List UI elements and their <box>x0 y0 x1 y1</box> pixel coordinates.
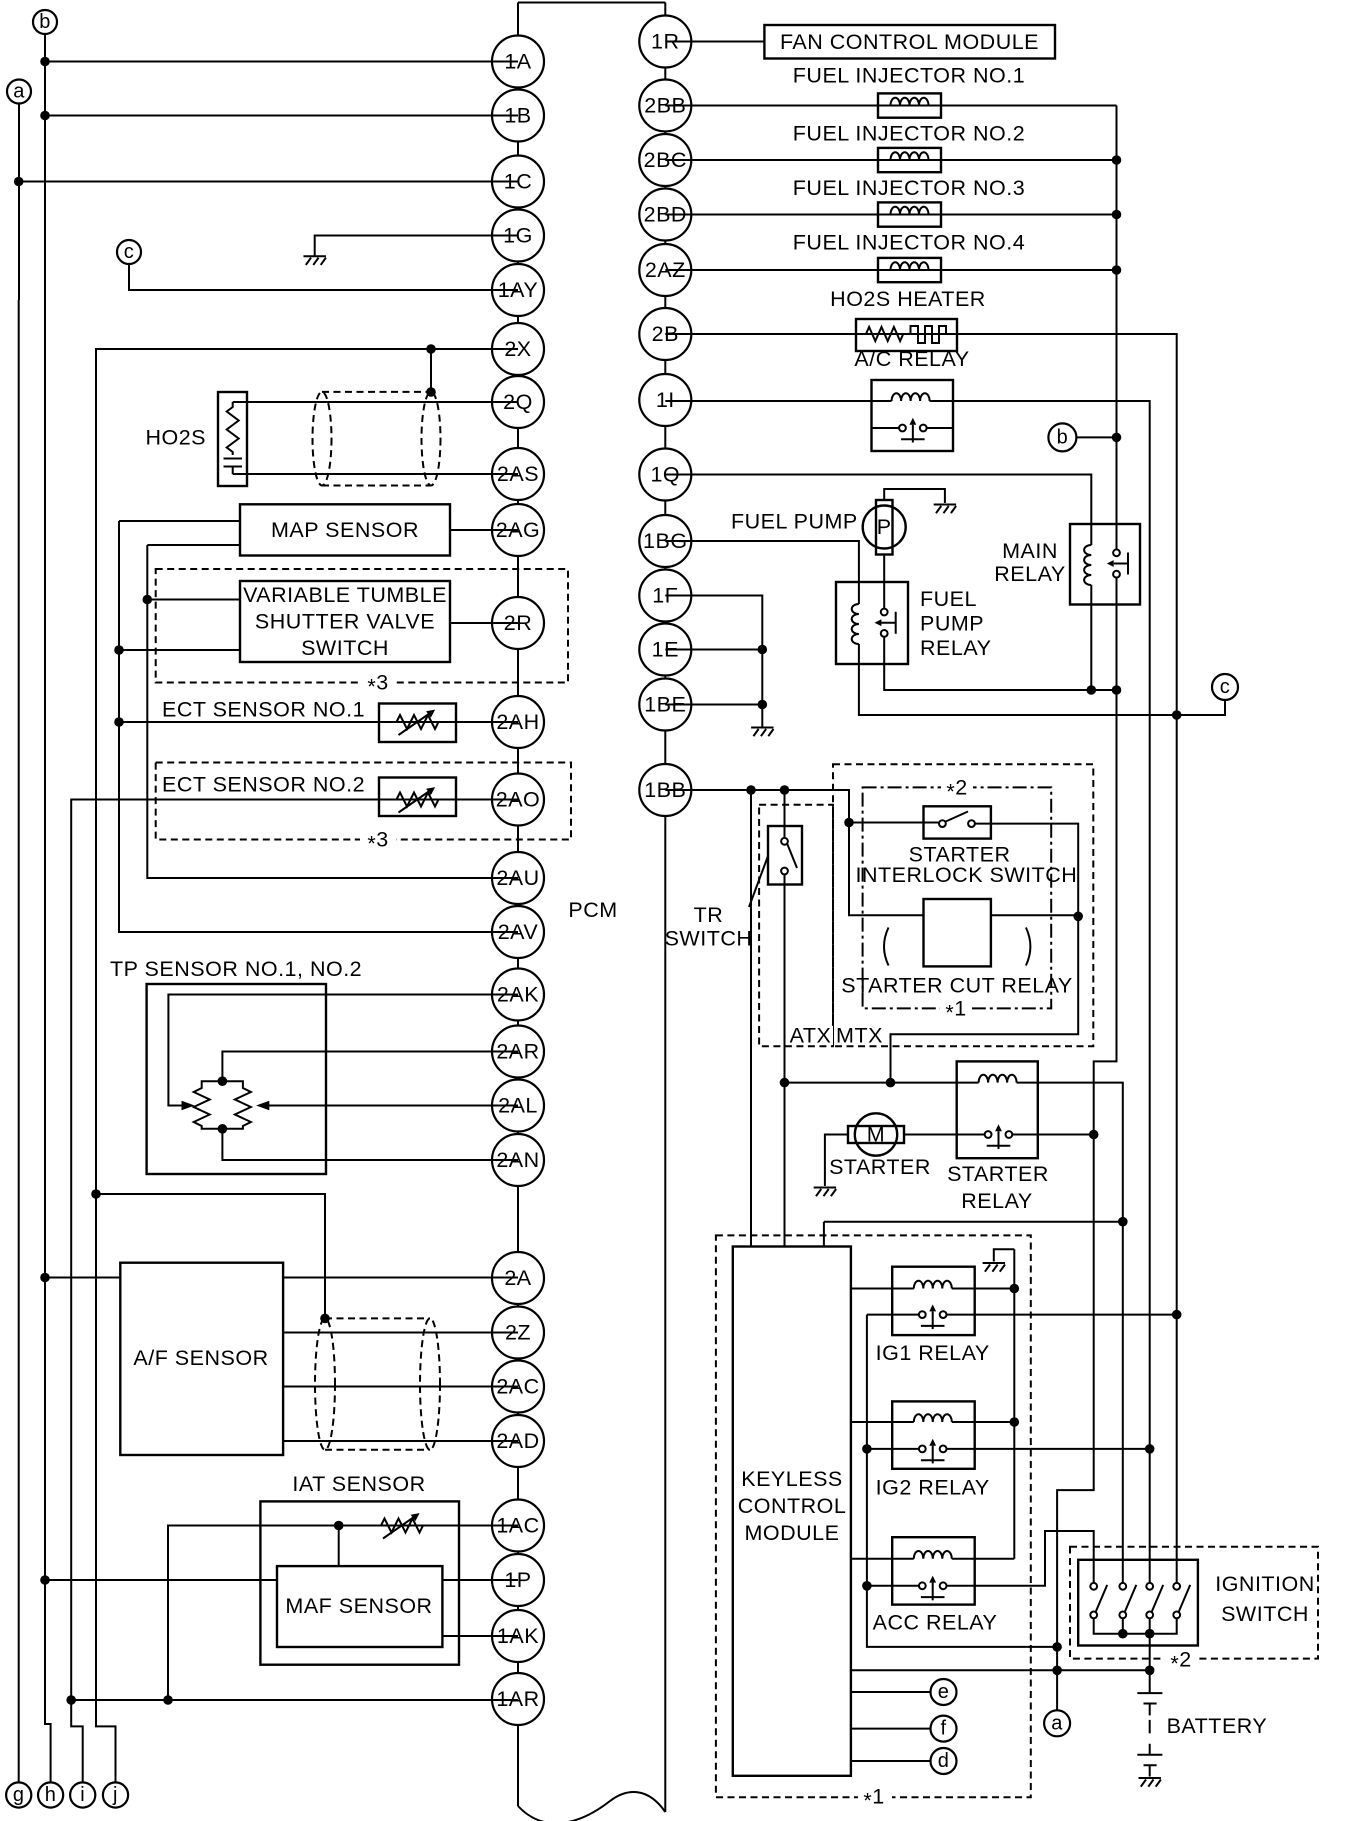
svg-text:PCM: PCM <box>568 898 617 922</box>
PCM pin 2AO <box>492 774 544 826</box>
PCM pin 1BB <box>639 764 691 816</box>
IG1 relay <box>892 1267 975 1335</box>
PCM pin 2BC <box>639 134 691 186</box>
wire KCM to IG1 relay coil <box>851 1288 914 1290</box>
svg-text:g: g <box>13 1784 25 1806</box>
wire ACC coil to ground rail <box>952 1558 1015 1560</box>
*2 label on ignition box <box>1164 1648 1198 1676</box>
PCM pin 1E <box>639 624 691 676</box>
A/F sensor <box>120 1263 283 1455</box>
wire MAP bottom-left to 2AU rail <box>147 544 240 546</box>
wire KCM to d <box>851 1760 931 1762</box>
wire starter motor to relay contact <box>904 1134 985 1136</box>
svg-text:a: a <box>13 81 25 103</box>
ignition switch label <box>1215 1572 1315 1626</box>
2BB rail segment with main relay contact <box>1094 106 1117 1132</box>
svg-text:SWITCH: SWITCH <box>665 927 753 951</box>
wire MAP to 2AG <box>450 529 518 531</box>
svg-text:IGNITION: IGNITION <box>1215 1572 1315 1596</box>
wire 2AL to TP wiper right <box>268 1105 518 1107</box>
svg-text:MAF SENSOR: MAF SENSOR <box>285 1594 432 1618</box>
wire TR rail to starter relay coil <box>785 1082 979 1084</box>
wire KCM to e <box>851 1691 931 1693</box>
wire IG1 contact left <box>867 1314 919 1316</box>
PCM pin 1BG <box>639 515 691 567</box>
TR switch rail from 1BB <box>784 790 786 838</box>
svg-text:A/F SENSOR: A/F SENSOR <box>133 1346 268 1370</box>
wire 1BB rail down to keyless module <box>750 790 752 1247</box>
starter motor <box>848 1113 904 1155</box>
PCM pin 1C <box>492 156 544 208</box>
PCM pin 2AR <box>492 1026 544 1078</box>
svg-text:ECT SENSOR NO.2: ECT SENSOR NO.2 <box>162 773 365 797</box>
svg-text:MTX: MTX <box>836 1024 883 1048</box>
svg-text:VARIABLE TUMBLE: VARIABLE TUMBLE <box>243 583 447 607</box>
TR switch label <box>665 903 753 951</box>
connector circle h <box>38 1782 63 1807</box>
svg-text:STARTER: STARTER <box>947 1162 1049 1186</box>
HO2S heater <box>856 319 957 351</box>
dashed box variable tumble *3 <box>156 569 568 699</box>
wire HO2S to 2AS <box>233 473 518 475</box>
PCM pin 2AK <box>492 969 544 1021</box>
svg-text:PUMP: PUMP <box>920 612 984 636</box>
wire KCM to f <box>851 1728 931 1730</box>
svg-text:ACC RELAY: ACC RELAY <box>873 1611 998 1635</box>
PCM pin 1BE <box>639 679 691 731</box>
shielded cable (A/F) <box>315 1318 440 1449</box>
starter cut relay braces <box>884 928 1030 966</box>
wire MAF to 1AK <box>442 1635 518 1637</box>
connector circle c (left) <box>117 240 141 264</box>
wire 1F 1E 1BE common <box>665 596 762 727</box>
main relay coil <box>1084 545 1091 585</box>
wire ECT1 to 2AH <box>119 721 518 723</box>
A/C relay <box>872 380 954 451</box>
MTX dashed box <box>833 764 1093 1046</box>
PCM pin 1F <box>639 570 691 622</box>
wire fuel pump to FP relay contact <box>883 555 885 609</box>
ECT sensor no.1 <box>162 698 456 743</box>
wire starter motor to ground <box>825 1135 848 1187</box>
wire 1A to b rail <box>45 61 518 63</box>
wire 2AR to TP top node <box>222 1052 518 1082</box>
wire 1C to a rail <box>19 181 518 183</box>
ignition switch dashed box <box>1070 1547 1318 1659</box>
PCM pin 2AN <box>492 1134 544 1186</box>
wire A/C coil to pole 3 rail <box>930 401 1150 1583</box>
ATX dashed box <box>759 805 833 1046</box>
wire fuel pump to ground <box>884 489 945 503</box>
wire ACC contact left <box>867 1585 919 1587</box>
svg-text:f: f <box>940 1718 946 1740</box>
ECT sensor no.2 <box>162 773 456 817</box>
TR switch leader line <box>749 856 768 907</box>
TR switch <box>768 826 802 885</box>
connector circle a (right) <box>1044 1710 1070 1736</box>
ground at battery <box>1139 1778 1161 1787</box>
wire 1BB branch to interlock switch <box>849 822 939 824</box>
wire starter relay contact to R1 rail <box>1012 1134 1094 1136</box>
PCM pin 2AH <box>492 696 544 748</box>
svg-text:FUEL INJECTOR NO.4: FUEL INJECTOR NO.4 <box>793 231 1025 255</box>
wire 2B to heater and right rail down to ignition pole 4 <box>665 334 1176 1583</box>
HO2S sensor <box>145 392 247 486</box>
relay ground rail <box>994 1249 1015 1559</box>
PCM pin 1A <box>492 36 544 88</box>
wire A/F to 2AD <box>283 1440 518 1442</box>
PCM pin 2X <box>492 323 544 375</box>
wire keyless top feed <box>824 1222 1123 1247</box>
wire FP relay contact to main relay junctions <box>884 637 1116 690</box>
wire IG2 coil to ground rail <box>952 1421 1015 1423</box>
svg-text:e: e <box>938 1681 950 1703</box>
wire ECT2 to 2AO and rail down to i <box>71 800 518 1783</box>
wire 1R to fan control module <box>665 41 764 43</box>
wire IAT node to MAF <box>338 1526 340 1567</box>
PCM pin 2AD <box>492 1415 544 1467</box>
R1 rail down with step to keyless area <box>1057 1135 1094 1711</box>
svg-text:SHUTTER VALVE: SHUTTER VALVE <box>255 610 435 634</box>
PCM pin 2Q <box>492 376 544 428</box>
wire IG1 coil to relay ground rail <box>952 1288 1015 1290</box>
PCM pin 2A <box>492 1252 544 1304</box>
arrowhead TP left <box>182 1101 195 1110</box>
wire 2BD to injector 3 <box>665 214 1116 216</box>
PCM pin 2AC <box>492 1361 544 1413</box>
svg-text:MODULE: MODULE <box>745 1521 840 1545</box>
thermistor IAT <box>381 1513 423 1538</box>
wire VT bottom to 2AV rail <box>119 649 240 651</box>
svg-text:FUEL PUMP: FUEL PUMP <box>731 510 858 534</box>
wire 2AZ to injector 4 <box>665 269 1116 271</box>
wire 1G to ground <box>315 236 518 257</box>
svg-text:TR: TR <box>694 903 724 927</box>
svg-text:b: b <box>1057 426 1069 448</box>
PCM pin 1I <box>639 374 691 426</box>
svg-text:HO2S: HO2S <box>145 426 206 450</box>
wire 1Q to main relay coil <box>665 475 1091 546</box>
PCM pin 2AL <box>492 1080 544 1132</box>
fuel pump relay <box>836 582 908 664</box>
wire KCM to IG2 relay coil <box>851 1421 914 1423</box>
main relay <box>1070 524 1140 605</box>
svg-text:b: b <box>39 11 51 33</box>
MAP sensor <box>240 504 450 555</box>
wire HO2S to 2Q <box>233 401 518 403</box>
PCM pin 1Q <box>639 449 691 501</box>
dash-dot box *2 *1 <box>863 775 1052 1024</box>
PCM pin 1AY <box>492 264 544 316</box>
svg-text:MAIN: MAIN <box>1002 539 1058 563</box>
starter interlock switch label <box>855 842 1077 887</box>
wire 2AV rail <box>119 521 518 932</box>
wire TR switch down to keyless module <box>784 874 786 1246</box>
fan control module <box>764 25 1055 59</box>
svg-text:a: a <box>1051 1712 1063 1734</box>
MAF sensor <box>277 1566 442 1647</box>
wire KCM to ACC relay coil <box>851 1558 914 1560</box>
keyless dashed box *1 <box>716 1235 1031 1812</box>
wire 2BC to injector 2 <box>665 159 1116 161</box>
svg-text:RELAY: RELAY <box>920 636 991 660</box>
wire FP relay coil to c <box>859 644 1225 715</box>
PCM pin 1B <box>492 90 544 142</box>
PCM pin 1AC <box>492 1500 544 1552</box>
svg-text:FUEL: FUEL <box>920 587 977 611</box>
PCM pin 2BB <box>639 80 691 132</box>
svg-text:STARTER CUT RELAY: STARTER CUT RELAY <box>841 973 1073 997</box>
svg-text:FAN CONTROL MODULE: FAN CONTROL MODULE <box>780 30 1039 54</box>
wire A/F to 2Z <box>283 1332 518 1334</box>
connector circle i <box>70 1782 95 1807</box>
wire 1AC through IAT <box>168 1526 518 1701</box>
starter relay label <box>947 1162 1049 1213</box>
connector circle j <box>103 1782 128 1807</box>
wire b rail down left side to h <box>45 34 51 1782</box>
wire IG2 contact to pole 3 rail <box>947 1448 1150 1450</box>
svg-text:c: c <box>124 241 135 263</box>
starter interlock switch <box>924 806 991 838</box>
svg-text:IG2 RELAY: IG2 RELAY <box>876 1476 990 1500</box>
svg-text:*3: *3 <box>367 671 388 699</box>
keyless control module <box>733 1247 851 1776</box>
thermistor ECT1 <box>397 710 439 735</box>
svg-text:IAT SENSOR: IAT SENSOR <box>292 1472 425 1496</box>
TP potentiometer <box>194 1081 251 1129</box>
connector circle f <box>931 1716 957 1742</box>
wire VT to 2R <box>450 622 518 624</box>
IG2 relay <box>892 1401 975 1468</box>
wire 1BG to FP relay coil <box>665 541 859 604</box>
svg-text:TP SENSOR NO.1, NO.2: TP SENSOR NO.1, NO.2 <box>110 957 362 981</box>
svg-text:HO2S HEATER: HO2S HEATER <box>830 287 986 311</box>
wire 1I to A/C relay coil <box>665 400 891 402</box>
svg-text:h: h <box>45 1784 57 1806</box>
PCM pin 1AR <box>492 1673 544 1725</box>
PCM pin 1P <box>492 1554 544 1606</box>
wire 1AR common <box>71 1699 518 1701</box>
shielded cable (HO2S) <box>313 392 441 486</box>
ground at 1BE <box>751 728 773 737</box>
wire starter relay coil to pole 2 rail <box>1017 1083 1123 1583</box>
fuel pump relay label <box>920 587 991 660</box>
svg-text:FUEL INJECTOR NO.3: FUEL INJECTOR NO.3 <box>793 176 1025 200</box>
starter cut relay <box>924 899 991 966</box>
wire IG1 contact to pole 4 rail <box>947 1314 1177 1316</box>
wire 2X shield ground stub <box>430 349 432 392</box>
wire TP bottom node to 2AN <box>222 1129 518 1160</box>
wire IG2 contact left <box>867 1448 919 1450</box>
wire interlock to MTX rail <box>891 824 1079 1083</box>
svg-text:ECT SENSOR NO.1: ECT SENSOR NO.1 <box>162 698 365 722</box>
svg-text:RELAY: RELAY <box>961 1189 1032 1213</box>
svg-text:*1: *1 <box>945 996 966 1024</box>
wire 1P to b rail <box>45 1579 277 1581</box>
wire MAF to 1P <box>442 1579 518 1581</box>
fuel pump motor <box>863 500 906 555</box>
wire A/F to 2AC <box>283 1386 518 1388</box>
svg-text:IG1 RELAY: IG1 RELAY <box>876 1341 990 1365</box>
wire 2AU rail <box>147 545 518 878</box>
svg-text:STARTER: STARTER <box>829 1155 931 1179</box>
wire starter cut relay right <box>991 914 1078 916</box>
arrowhead TP right <box>256 1101 269 1110</box>
thermistor ECT2 <box>397 787 439 812</box>
variable tumble shutter valve switch <box>240 581 450 662</box>
PCM pin 2Z <box>492 1307 544 1359</box>
PCM pin 2AU <box>492 852 544 904</box>
PCM pin 1R <box>639 16 691 68</box>
svg-text:d: d <box>938 1750 950 1772</box>
wire 2A to b rail <box>45 1277 518 1279</box>
connector circle c (right) <box>1212 674 1238 700</box>
battery <box>1137 1693 1162 1776</box>
wire 1BB to TR switch and starter cut relay <box>665 790 923 915</box>
ground at IG relays <box>983 1263 1005 1272</box>
svg-text:M: M <box>867 1123 885 1147</box>
PCM pin 2AS <box>492 448 544 500</box>
svg-text:RELAY: RELAY <box>994 562 1065 586</box>
PCM pin 1AK <box>492 1610 544 1662</box>
ground at starter <box>814 1188 836 1197</box>
wire ignition common to battery <box>1149 1634 1151 1693</box>
PCM pin 2B <box>639 308 691 360</box>
PCM pin 2BD <box>639 189 691 241</box>
ground at 1G <box>304 256 326 265</box>
PCM pin 1G <box>492 210 544 262</box>
svg-text:SWITCH: SWITCH <box>1221 1602 1309 1626</box>
svg-text:P: P <box>877 515 892 539</box>
wire c to 1AY <box>129 264 518 290</box>
ground at fuel pump <box>934 505 956 514</box>
svg-text:BATTERY: BATTERY <box>1167 1714 1268 1738</box>
svg-text:*1: *1 <box>863 1785 884 1813</box>
svg-text:CONTROL: CONTROL <box>738 1494 847 1518</box>
fuel injector no.2 <box>878 148 941 172</box>
connector circle e <box>931 1679 957 1705</box>
PCM pin 2AV <box>492 906 544 958</box>
contact-left rail down to step rail <box>867 1315 1057 1647</box>
PCM pin 2R <box>492 597 544 649</box>
fuel injector no.4 <box>878 258 941 282</box>
wire main relay coil to junction <box>1090 585 1092 690</box>
svg-text:*2: *2 <box>1170 1648 1191 1676</box>
PCM box outline <box>518 3 665 1821</box>
svg-text:ATX: ATX <box>790 1024 832 1048</box>
svg-text:FUEL INJECTOR NO.1: FUEL INJECTOR NO.1 <box>793 64 1025 88</box>
ACC relay <box>892 1537 975 1604</box>
svg-text:A/C RELAY: A/C RELAY <box>854 347 969 371</box>
fuel injector no.3 <box>878 202 941 226</box>
wire KCM bottom to battery rail <box>851 1669 1150 1671</box>
svg-text:*2: *2 <box>946 775 967 803</box>
connector circle b (right) <box>1048 423 1076 451</box>
PCM pin 2AG <box>492 504 544 556</box>
PCM pin 2AZ <box>639 244 691 296</box>
svg-text:i: i <box>80 1784 85 1806</box>
starter relay <box>957 1061 1038 1158</box>
wire a rail down left side to g <box>18 104 20 1783</box>
wire MAP top-left to 2AV rail <box>119 520 240 522</box>
svg-text:*3: *3 <box>367 828 388 856</box>
svg-text:KEYLESS: KEYLESS <box>741 1467 843 1491</box>
connector circle a (top left) <box>7 80 31 104</box>
connector circle g <box>6 1782 31 1807</box>
wire 1B to b rail <box>45 115 518 117</box>
wire VT top to 2AU rail <box>147 599 240 601</box>
connector circle d <box>931 1748 957 1774</box>
wire 2X left run down to j <box>96 349 518 1782</box>
svg-text:FUEL INJECTOR NO.2: FUEL INJECTOR NO.2 <box>793 121 1025 145</box>
svg-text:j: j <box>112 1784 118 1806</box>
svg-text:INTERLOCK SWITCH: INTERLOCK SWITCH <box>855 863 1077 887</box>
connector circle b (top left) <box>33 10 57 34</box>
main relay label <box>994 539 1065 586</box>
ignition switch <box>1078 1560 1198 1646</box>
wire 2AK to TP wiper left <box>168 995 518 1106</box>
svg-text:c: c <box>1220 676 1231 698</box>
wire ACC contact to ignition pole 1 <box>947 1531 1094 1586</box>
wire b to 2BB rail <box>1076 436 1116 438</box>
ATX MTX labels <box>788 1024 883 1048</box>
svg-text:SWITCH: SWITCH <box>301 636 389 660</box>
TP sensor box <box>147 984 326 1174</box>
IAT sensor box <box>260 1501 459 1664</box>
wire 2BB to injector 1 and rail corner <box>665 105 1116 107</box>
fuel injector no.1 <box>878 93 941 117</box>
svg-text:MAP SENSOR: MAP SENSOR <box>271 518 419 542</box>
wire A/F shield ground to 2X rail <box>96 1194 325 1318</box>
dashed box ECT2 *3 <box>156 763 571 856</box>
